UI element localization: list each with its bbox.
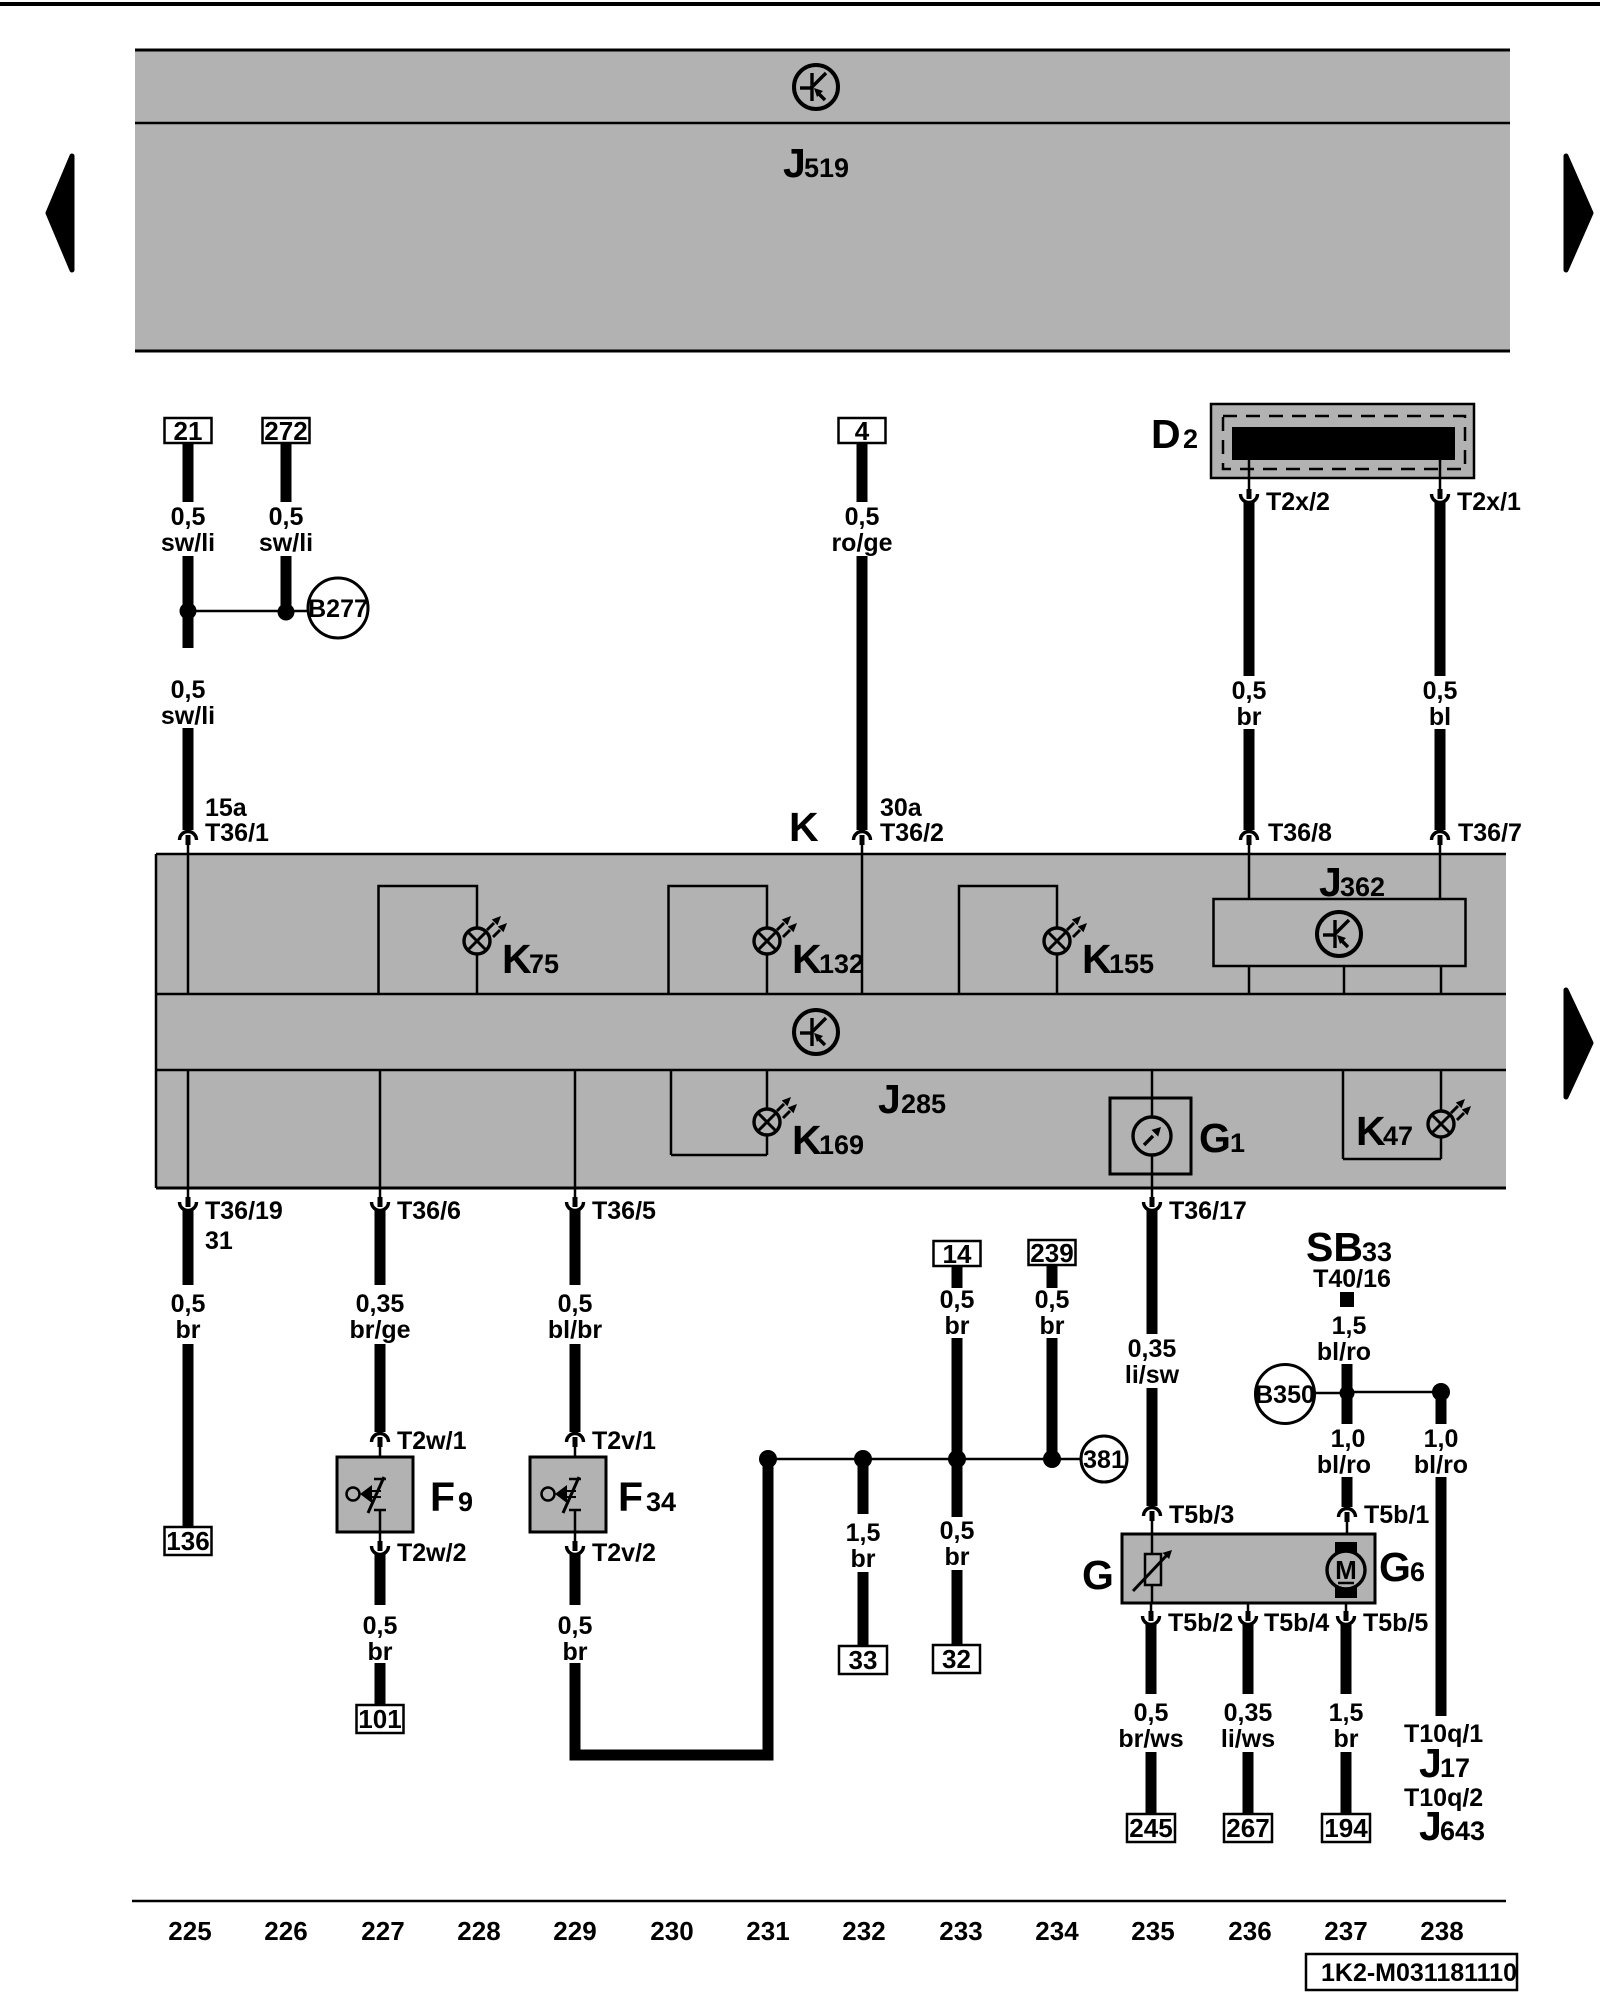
junction wire 272 to B277 [278, 604, 295, 621]
internal wire from T36/2 [861, 854, 864, 994]
svg-text:D: D [1151, 411, 1181, 457]
wire 21 lower segment [183, 728, 194, 830]
gauge G1 symbol [1151, 1098, 1154, 1117]
terminal T2w/1 [372, 1434, 389, 1448]
svg-text:0,5: 0,5 [171, 676, 206, 704]
svg-text:sw/li: sw/li [161, 702, 215, 730]
svg-text:M: M [1335, 1555, 1357, 1585]
svg-text:229: 229 [553, 1916, 596, 1946]
node circle 381 [1081, 1436, 1127, 1482]
svg-text:T36/2: T36/2 [880, 819, 944, 847]
junction on wire 21 [180, 603, 197, 620]
svg-text:136: 136 [166, 1526, 209, 1556]
indicator lamp K132 [754, 916, 797, 954]
data bus symbol in J362 [1317, 912, 1361, 956]
svg-text:B277: B277 [308, 595, 368, 623]
svg-text:T5b/4: T5b/4 [1264, 1609, 1329, 1637]
svg-text:239: 239 [1030, 1238, 1073, 1268]
svg-text:237: 237 [1324, 1916, 1367, 1946]
svg-text:J: J [878, 1076, 901, 1122]
sender G / pump G6 box [1122, 1534, 1375, 1603]
data bus symbol mid band [794, 1010, 838, 1054]
sender G rheostat symbol [1151, 1534, 1154, 1554]
right continuation arrow mid [1566, 990, 1591, 1097]
junction node 381 rail [768, 1458, 1081, 1461]
wire to terminal 32 [952, 1570, 963, 1645]
svg-text:SB: SB [1306, 1224, 1363, 1270]
svg-text:0,35: 0,35 [356, 1290, 405, 1318]
svg-text:232: 232 [842, 1916, 885, 1946]
wire to B277 [188, 610, 309, 613]
wire T36/19 lower [183, 1344, 194, 1527]
internal wire to T36/6 [379, 1070, 382, 1188]
terminal box 245 [1127, 1814, 1175, 1842]
gauge G1 box [1110, 1098, 1191, 1174]
wire 239 to junction [1047, 1338, 1058, 1459]
svg-text:br: br [945, 1312, 970, 1340]
junction to B350 [1340, 1386, 1355, 1401]
terminal box 267 [1224, 1814, 1272, 1842]
indicator lamp K169 [754, 1097, 797, 1135]
fuse contact square [1340, 1292, 1354, 1307]
svg-text:br: br [176, 1316, 201, 1344]
svg-text:272: 272 [264, 416, 307, 446]
wire T36/17 upper [1147, 1209, 1158, 1334]
svg-text:2: 2 [1183, 424, 1198, 454]
svg-text:br: br [1334, 1725, 1359, 1753]
indicator lamp K47 [1428, 1099, 1471, 1137]
svg-text:14: 14 [943, 1239, 972, 1269]
svg-text:bl/ro: bl/ro [1317, 1451, 1371, 1479]
svg-text:235: 235 [1131, 1916, 1174, 1946]
svg-text:9: 9 [458, 1487, 473, 1517]
wire 272 lower segment [281, 556, 292, 612]
instrument cluster K box [156, 854, 1506, 1188]
svg-text:T36/6: T36/6 [397, 1197, 461, 1225]
svg-text:33: 33 [1362, 1237, 1392, 1267]
wire D2 T2x/2 lower [1244, 729, 1255, 830]
svg-text:101: 101 [358, 1704, 401, 1734]
switch F34 symbol [569, 1478, 581, 1481]
svg-text:0,35: 0,35 [1128, 1335, 1177, 1363]
svg-text:bl/ro: bl/ro [1317, 1338, 1371, 1366]
svg-text:br: br [1040, 1312, 1065, 1340]
svg-text:J: J [1419, 1740, 1442, 1786]
wire D2 T2x/1 upper [1435, 501, 1446, 676]
wire to terminal 33 lower [858, 1572, 869, 1646]
wire T2v/2 L-run to junction [575, 1462, 768, 1755]
internal wire from T36/7 [1439, 854, 1442, 899]
wire T36/6 upper [375, 1209, 386, 1285]
terminal box 136 [165, 1527, 212, 1555]
svg-text:1,5: 1,5 [1332, 1312, 1367, 1340]
switch F9 box [337, 1457, 413, 1532]
wire T5b/4 lower [1243, 1752, 1254, 1814]
svg-text:1K2-M031181110: 1K2-M031181110 [1321, 1959, 1517, 1987]
internal wire to T36/5 [574, 1070, 577, 1188]
svg-text:230: 230 [650, 1916, 693, 1946]
svg-text:sw/li: sw/li [259, 529, 313, 557]
terminal T5b/1 [1339, 1509, 1356, 1523]
svg-text:br: br [851, 1545, 876, 1573]
D2 pin lead T2x/2 [1248, 460, 1251, 490]
J362 stub wires [1248, 966, 1251, 994]
svg-text:T10q/1: T10q/1 [1404, 1720, 1483, 1748]
indicator lamp K75 [464, 916, 507, 954]
terminal T36/7 [1432, 832, 1449, 846]
wire T5b/5 lower [1341, 1752, 1352, 1814]
indicator lamp K132 circuit loop [669, 886, 768, 994]
svg-text:0,5: 0,5 [940, 1286, 975, 1314]
wire T5b/2 upper [1146, 1623, 1157, 1694]
wire T5b/4 upper [1243, 1623, 1254, 1694]
wire 239 stub [1047, 1265, 1058, 1288]
indicator lamp K155 [1044, 916, 1087, 954]
svg-text:F: F [618, 1474, 643, 1520]
svg-text:T36/19: T36/19 [205, 1197, 283, 1225]
wire T2w/2 lower [375, 1663, 386, 1705]
wire T5b/2 lower [1146, 1752, 1157, 1814]
svg-text:1,5: 1,5 [1329, 1699, 1364, 1727]
gauge G1 feed wire [1151, 1070, 1154, 1098]
terminal T5b/3 [1144, 1508, 1161, 1522]
svg-text:0,5: 0,5 [940, 1517, 975, 1545]
svg-text:30a: 30a [880, 794, 923, 822]
wire T2v/2 upper [570, 1553, 581, 1605]
svg-text:225: 225 [168, 1916, 211, 1946]
terminal T2w/2 [372, 1541, 389, 1555]
switch F34 box [530, 1457, 606, 1532]
svg-text:T36/5: T36/5 [592, 1197, 656, 1225]
svg-text:0,5: 0,5 [269, 503, 304, 531]
svg-text:0,5: 0,5 [558, 1612, 593, 1640]
svg-text:T36/7: T36/7 [1458, 819, 1522, 847]
svg-text:228: 228 [457, 1916, 500, 1946]
pump motor G6 symbol [1335, 1542, 1357, 1556]
svg-text:T5b/1: T5b/1 [1364, 1501, 1429, 1529]
svg-text:227: 227 [361, 1916, 404, 1946]
track scale line [132, 1900, 1506, 1903]
svg-text:K: K [792, 1117, 822, 1163]
svg-text:br: br [1237, 703, 1262, 731]
svg-text:0,5: 0,5 [558, 1290, 593, 1318]
wire SB33 through junction [1342, 1364, 1353, 1424]
svg-text:bl/ro: bl/ro [1414, 1451, 1468, 1479]
svg-text:br: br [368, 1638, 393, 1666]
svg-text:21: 21 [174, 416, 203, 446]
svg-text:K: K [1082, 936, 1112, 982]
wire D2 T2x/2 upper [1244, 501, 1255, 676]
svg-text:li/sw: li/sw [1125, 1361, 1180, 1389]
svg-text:1,0: 1,0 [1424, 1425, 1459, 1453]
wire 14 through junction [952, 1338, 963, 1517]
terminal box 21 [165, 418, 212, 443]
svg-text:1,0: 1,0 [1331, 1425, 1366, 1453]
terminal box 239 [1029, 1240, 1076, 1265]
terminal box 272 [263, 418, 310, 443]
indicator lamp K155 circuit loop [959, 886, 1057, 994]
svg-text:17: 17 [1440, 1753, 1470, 1783]
svg-text:381: 381 [1083, 1446, 1125, 1474]
svg-text:4: 4 [855, 416, 870, 446]
svg-text:6: 6 [1410, 1557, 1425, 1587]
indicator lamp K47 circuit loop [1342, 1070, 1345, 1159]
terminal T36/5 [574, 1188, 577, 1198]
D2 pin lead T2x/1 [1439, 460, 1442, 490]
svg-text:J: J [1419, 1803, 1442, 1849]
wire 4 upper segment [857, 443, 868, 502]
internal wire from T36/8 [1248, 854, 1251, 899]
svg-text:0,5: 0,5 [1134, 1699, 1169, 1727]
svg-text:15a: 15a [205, 794, 248, 822]
wire D2 T2x/1 lower [1435, 729, 1446, 830]
svg-text:362: 362 [1340, 872, 1385, 902]
terminal T36/6 [379, 1188, 382, 1198]
wire J17 branch upper [1436, 1392, 1447, 1424]
svg-text:75: 75 [529, 949, 559, 979]
svg-text:K: K [1356, 1108, 1386, 1154]
svg-text:643: 643 [1440, 1816, 1485, 1846]
wire T36/5 lower [570, 1344, 581, 1432]
left continuation arrow [48, 156, 72, 270]
svg-text:236: 236 [1228, 1916, 1271, 1946]
terminal T36/19 [187, 1188, 190, 1198]
svg-text:32: 32 [942, 1644, 971, 1674]
terminal T2v/2 [567, 1541, 584, 1555]
svg-text:31: 31 [205, 1227, 233, 1255]
terminal box 194 [1322, 1814, 1370, 1842]
data bus symbol in J519 [794, 65, 838, 109]
svg-text:br: br [945, 1543, 970, 1571]
terminal T36/1 [180, 832, 197, 846]
wire 21 upper segment [183, 443, 194, 502]
svg-text:br: br [563, 1638, 588, 1666]
connector circle B277 [308, 578, 368, 638]
svg-text:T2x/1: T2x/1 [1457, 488, 1521, 516]
page top border line [0, 2, 1600, 6]
svg-text:47: 47 [1383, 1121, 1413, 1151]
svg-text:231: 231 [746, 1916, 789, 1946]
svg-text:234: 234 [1035, 1916, 1079, 1946]
svg-text:G: G [1199, 1115, 1231, 1161]
svg-text:K: K [792, 936, 822, 982]
svg-text:G: G [1082, 1552, 1114, 1598]
svg-text:169: 169 [819, 1130, 864, 1160]
svg-text:519: 519 [804, 153, 849, 183]
svg-text:T5b/2: T5b/2 [1168, 1609, 1233, 1637]
svg-text:bl/br: bl/br [548, 1316, 602, 1344]
terminal T36/2 [854, 832, 871, 846]
svg-text:0,5: 0,5 [845, 503, 880, 531]
svg-text:0,5: 0,5 [1232, 677, 1267, 705]
wire T36/17 lower [1147, 1388, 1158, 1506]
svg-text:0,35: 0,35 [1224, 1699, 1273, 1727]
internal wire from T36/1 [187, 854, 190, 994]
wire 272 upper segment [281, 443, 292, 502]
svg-text:F: F [430, 1474, 455, 1520]
svg-text:T2v/2: T2v/2 [592, 1539, 656, 1567]
right continuation arrow [1566, 156, 1591, 270]
terminal box 32 [933, 1645, 980, 1673]
wire 21 mid segment [183, 556, 194, 648]
terminal box 14 [934, 1241, 981, 1266]
svg-text:J: J [783, 140, 806, 186]
svg-text:T2w/1: T2w/1 [397, 1427, 467, 1455]
svg-text:T5b/3: T5b/3 [1169, 1501, 1234, 1529]
terminal box 4 [839, 418, 886, 443]
connector circle B350 [1256, 1365, 1315, 1424]
svg-text:K: K [789, 804, 819, 850]
switch F9 symbol [374, 1478, 386, 1481]
svg-text:br/ws: br/ws [1118, 1725, 1183, 1753]
svg-text:br/ge: br/ge [349, 1316, 410, 1344]
svg-text:1: 1 [1230, 1128, 1245, 1158]
indicator lamp K75 circuit loop [379, 886, 478, 994]
wire T36/19 upper [183, 1209, 194, 1285]
svg-text:1,5: 1,5 [846, 1519, 881, 1547]
terminal box 33 [839, 1646, 887, 1674]
svg-text:285: 285 [901, 1089, 946, 1119]
wire T36/6 lower [375, 1344, 386, 1432]
svg-text:245: 245 [1129, 1813, 1172, 1843]
svg-text:T2w/2: T2w/2 [397, 1539, 466, 1567]
terminal T36/17 [1151, 1188, 1154, 1198]
internal wire to T36/19 [187, 1070, 190, 1188]
svg-text:194: 194 [1324, 1813, 1368, 1843]
svg-text:B350: B350 [1255, 1381, 1315, 1409]
svg-text:T2v/1: T2v/1 [592, 1427, 656, 1455]
svg-text:T5b/5: T5b/5 [1363, 1609, 1428, 1637]
terminal T2v/1 [567, 1434, 584, 1448]
wire 14 stub [952, 1266, 963, 1288]
svg-text:226: 226 [264, 1916, 307, 1946]
svg-text:T10q/2: T10q/2 [1404, 1784, 1483, 1812]
wire SB33 lower [1342, 1477, 1353, 1507]
svg-text:T40/16: T40/16 [1313, 1265, 1391, 1293]
svg-text:K: K [502, 936, 532, 982]
svg-text:0,5: 0,5 [1035, 1286, 1070, 1314]
svg-text:0,5: 0,5 [363, 1612, 398, 1640]
svg-text:G: G [1379, 1544, 1411, 1590]
terminal box 101 [357, 1705, 404, 1733]
svg-text:li/ws: li/ws [1221, 1725, 1275, 1753]
wire T5b/5 upper [1341, 1623, 1352, 1694]
wire to terminal 33 upper [858, 1459, 869, 1514]
terminal T36/8 [1241, 832, 1258, 846]
svg-text:0,5: 0,5 [171, 1290, 206, 1318]
wire J17 branch long [1436, 1477, 1447, 1716]
svg-text:33: 33 [849, 1645, 878, 1675]
svg-text:T36/1: T36/1 [205, 819, 269, 847]
terminal T5b/4 [1247, 1603, 1250, 1612]
wire T2w/2 upper [375, 1553, 386, 1605]
wire T36/5 upper [570, 1209, 581, 1285]
svg-text:155: 155 [1109, 949, 1154, 979]
svg-text:132: 132 [819, 949, 864, 979]
svg-text:T2x/2: T2x/2 [1266, 488, 1330, 516]
svg-text:34: 34 [646, 1487, 676, 1517]
svg-text:T36/17: T36/17 [1169, 1197, 1247, 1225]
junction rail to J17 feed [1353, 1391, 1441, 1394]
svg-text:267: 267 [1226, 1813, 1269, 1843]
svg-text:ro/ge: ro/ge [831, 529, 892, 557]
control unit J362 box [1214, 899, 1466, 966]
terminal T5b/2 [1150, 1603, 1153, 1612]
control unit J519 box [135, 50, 1510, 351]
svg-text:T36/8: T36/8 [1268, 819, 1332, 847]
svg-text:bl: bl [1429, 703, 1451, 731]
svg-text:0,5: 0,5 [1423, 677, 1458, 705]
svg-text:0,5: 0,5 [171, 503, 206, 531]
terminal T5b/5 [1345, 1603, 1348, 1612]
diagram number box [1306, 1954, 1517, 1990]
wire 4 long segment [857, 556, 868, 830]
svg-text:233: 233 [939, 1916, 982, 1946]
svg-text:sw/li: sw/li [161, 529, 215, 557]
svg-text:238: 238 [1420, 1916, 1463, 1946]
indicator lamp K169 circuit loop [670, 1070, 673, 1155]
